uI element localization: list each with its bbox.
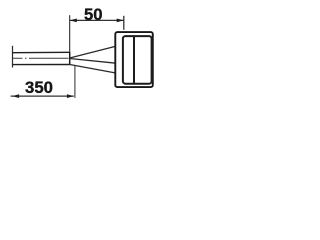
svg-text:350: 350 — [25, 79, 53, 97]
svg-text:50: 50 — [84, 6, 103, 24]
